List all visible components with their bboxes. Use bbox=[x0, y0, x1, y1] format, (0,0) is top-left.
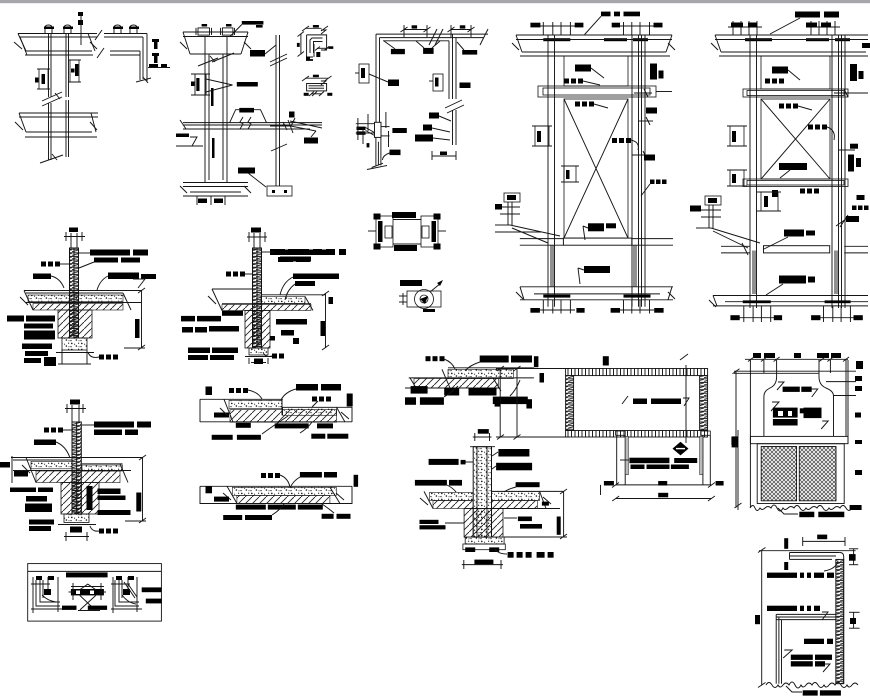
interior label Z--7 bbox=[622, 396, 628, 404]
top dim ticks bbox=[732, 21, 734, 35]
right vbars bbox=[534, 356, 539, 367]
X-braced panel bbox=[761, 99, 830, 179]
mini detail 3: L angle mirrored bbox=[115, 580, 139, 606]
top dim marks bbox=[753, 353, 761, 358]
right dim line bbox=[141, 290, 143, 348]
inner room box bbox=[776, 613, 836, 615]
base beam bbox=[713, 295, 868, 297]
bottom labels bbox=[799, 512, 814, 518]
left section symbol bbox=[535, 126, 549, 146]
right vbar bbox=[732, 436, 738, 447]
slab both sides bbox=[11, 457, 143, 459]
slab body bbox=[200, 398, 283, 400]
post cap verticals bbox=[70, 233, 72, 248]
top beam bbox=[516, 34, 672, 36]
right label bbox=[392, 128, 406, 133]
wall verticals below lower band bbox=[48, 137, 50, 160]
mast break marks bbox=[270, 54, 287, 62]
left diamonds bbox=[226, 272, 231, 277]
left labels bbox=[429, 459, 459, 465]
top tick bbox=[69, 228, 78, 233]
right column bbox=[631, 35, 633, 307]
label lower panel bbox=[779, 276, 806, 284]
anchor bolt left bbox=[45, 25, 52, 33]
labels below hatch left bbox=[222, 311, 243, 316]
bottom dim bbox=[462, 564, 503, 566]
dim group 1 bbox=[404, 29, 427, 31]
ladder post bbox=[72, 422, 81, 514]
right side marks bbox=[856, 361, 863, 369]
top horizontal line bbox=[759, 550, 856, 552]
coping L profile bbox=[790, 552, 840, 554]
bottom tick bbox=[70, 527, 82, 533]
anchor bolt right bbox=[64, 25, 71, 33]
dashed marks bbox=[149, 64, 158, 67]
right vbar bbox=[347, 394, 353, 407]
bottom labels bbox=[411, 386, 428, 394]
bottom dim ticks bbox=[542, 300, 544, 314]
mast dim tick bbox=[270, 125, 290, 127]
converging leader to label bbox=[206, 79, 233, 85]
left column bbox=[749, 35, 751, 308]
right side labels mid bbox=[850, 144, 858, 149]
top tick and dim bbox=[478, 429, 489, 434]
bottom dim ticks bbox=[743, 306, 745, 322]
left edge marks bbox=[0, 462, 10, 468]
right dim bbox=[325, 293, 327, 348]
label row 1 bbox=[767, 573, 797, 578]
lower panel inner verticals bbox=[752, 251, 754, 295]
upper panel labels bbox=[575, 65, 591, 72]
upper panel outline bbox=[564, 56, 628, 86]
upper panel outline bbox=[761, 56, 830, 89]
break slashes on wall bbox=[429, 29, 437, 45]
speckled wall bbox=[473, 447, 491, 537]
top labels of slab bbox=[415, 480, 447, 486]
dim line across bbox=[734, 370, 856, 372]
window frame bbox=[757, 444, 844, 504]
footing bbox=[62, 338, 87, 350]
small tick bbox=[367, 143, 370, 147]
right column bbox=[701, 431, 711, 435]
mini detail 2: bar with wedge bbox=[71, 586, 104, 588]
top labels bbox=[480, 356, 509, 363]
section below box: left column bbox=[616, 431, 626, 435]
right label at lintel bbox=[646, 108, 657, 114]
leader line down to diamond4 bbox=[685, 365, 687, 443]
footing bbox=[64, 514, 89, 523]
right column bbox=[831, 35, 833, 308]
bottom beam of panel bbox=[520, 238, 564, 240]
bottom labels bbox=[236, 423, 251, 428]
mid band bbox=[750, 436, 848, 443]
ladder post bbox=[253, 248, 262, 348]
bottom diamonds bbox=[99, 529, 104, 534]
left diamonds bbox=[41, 262, 46, 267]
slab right bbox=[492, 491, 540, 500]
footing layers bbox=[465, 537, 504, 544]
center column box bbox=[375, 122, 382, 137]
left section symbol bbox=[195, 74, 206, 95]
anchor bolt 1 bbox=[114, 25, 121, 33]
wall vertical pair 1 bbox=[48, 34, 50, 98]
right labels bbox=[498, 449, 529, 457]
labels right of post bbox=[274, 250, 319, 256]
top diamonds bbox=[261, 473, 266, 478]
top tick bbox=[70, 400, 80, 405]
bottom labels bbox=[803, 690, 818, 695]
dim line 1 bbox=[616, 484, 712, 486]
mast side ticks bbox=[289, 112, 295, 118]
outer wall line pair bbox=[841, 35, 843, 308]
mid floor beam bbox=[721, 245, 750, 247]
inside labels bbox=[804, 639, 824, 644]
wall verticals continue through band bbox=[48, 103, 50, 137]
rebar dark bars in column bbox=[211, 88, 214, 106]
below lintel diamonds bbox=[575, 102, 580, 107]
ground squiggle bbox=[750, 505, 852, 511]
lower wall band bbox=[19, 112, 98, 114]
left diamonds bbox=[44, 428, 49, 433]
hump callout on beam bbox=[230, 110, 267, 123]
bottom diamonds bbox=[272, 354, 277, 359]
right stem verticals bbox=[448, 41, 450, 99]
top beam bbox=[183, 31, 248, 33]
middle beam bbox=[183, 122, 322, 124]
right section symbol bbox=[433, 74, 443, 91]
ground squiggle bbox=[766, 682, 858, 688]
pedestal bbox=[58, 310, 92, 338]
left label bbox=[33, 274, 51, 280]
wall band bbox=[104, 33, 147, 35]
outer wall line pair bbox=[641, 35, 643, 307]
label in panel bbox=[779, 163, 807, 170]
inner section symbol bbox=[564, 166, 576, 182]
beam-column joint dashes bbox=[543, 38, 570, 41]
labels left of lower stem bbox=[429, 113, 439, 119]
far-left pier symbol bbox=[705, 196, 721, 205]
right labels bbox=[98, 489, 121, 495]
bottom dim bbox=[432, 155, 456, 157]
diamonds below lintel bbox=[779, 104, 784, 109]
top tick bbox=[251, 228, 261, 233]
slab left bbox=[429, 493, 473, 501]
label to base bbox=[238, 168, 255, 174]
base plate bbox=[267, 186, 292, 196]
left tall dim line bbox=[761, 550, 763, 685]
beam-column joint dashes bbox=[745, 38, 772, 41]
bottom dim ticks bbox=[196, 196, 198, 205]
X-braced panel bbox=[564, 99, 628, 238]
diamonds below lintel2 bbox=[800, 189, 805, 194]
wall break slashes bbox=[95, 30, 102, 40]
label lower panel bbox=[584, 266, 610, 273]
slab body: high right, low left bbox=[448, 367, 534, 369]
dashed datum marks bbox=[78, 20, 83, 25]
box borders with ticks bbox=[566, 369, 708, 376]
wall cap bbox=[470, 446, 495, 448]
left marks bbox=[206, 486, 213, 493]
interior Z--7 label bbox=[777, 382, 784, 390]
lower wall verticals bbox=[375, 137, 377, 165]
right dim bbox=[142, 457, 144, 521]
top dim ticks bbox=[542, 22, 544, 35]
footing bbox=[249, 348, 268, 355]
stem continues down bbox=[452, 110, 454, 145]
left column bbox=[547, 35, 549, 307]
left label stack bbox=[7, 316, 24, 322]
diamonds in panel bbox=[808, 125, 813, 130]
top wall band bbox=[18, 33, 97, 35]
dim group 2 bbox=[451, 29, 471, 31]
side plate mark 1 bbox=[152, 39, 159, 42]
left section symbol bbox=[359, 64, 369, 83]
leaders bbox=[97, 276, 108, 290]
small ticks above bbox=[784, 538, 788, 549]
mini detail 1: L angle bbox=[36, 580, 60, 606]
top label bbox=[242, 21, 264, 25]
far-left pier symbol bbox=[504, 193, 520, 202]
top labels bbox=[296, 384, 318, 391]
label to mast bbox=[250, 50, 265, 57]
lintel beam bbox=[538, 86, 656, 97]
upper panel labels bbox=[772, 67, 788, 74]
right label lower2 bbox=[846, 216, 859, 222]
labels under wall with V leaders bbox=[391, 49, 405, 54]
lintel beam 1 bbox=[743, 89, 848, 97]
column section symbol right bbox=[70, 60, 79, 82]
right outer labels upper bbox=[650, 64, 657, 80]
right small blob and diamonds bbox=[857, 195, 865, 200]
top label and dim bbox=[817, 535, 827, 540]
bottom break mark bbox=[40, 155, 63, 163]
left label bbox=[34, 440, 56, 446]
top grey bar bbox=[0, 0, 870, 3]
diamonds 2 bbox=[312, 397, 317, 402]
top title label bbox=[601, 12, 611, 17]
7 mark and line bbox=[176, 134, 189, 138]
bottom beam bbox=[183, 182, 248, 184]
label above bottom beam bbox=[588, 223, 604, 231]
lower panel inner verticals bbox=[550, 245, 552, 287]
slab bbox=[212, 288, 253, 290]
bottom labels bbox=[236, 505, 266, 510]
labels right of post bbox=[94, 422, 134, 428]
tick lines bbox=[356, 123, 375, 125]
labels right of post bbox=[90, 250, 130, 256]
pedestal bbox=[464, 509, 503, 538]
right big label + 7 mark bbox=[108, 273, 139, 280]
left label stack bbox=[10, 488, 36, 493]
interior label rows bbox=[629, 458, 669, 464]
right dim bracket 2 bbox=[849, 611, 860, 613]
right labels bbox=[460, 83, 471, 89]
left corner verticals down bbox=[375, 34, 377, 122]
wall vertical pair 2 bbox=[65, 34, 67, 98]
right diamonds lower bbox=[650, 180, 655, 185]
mid-right labels bbox=[518, 517, 532, 522]
lintel beam 2 bbox=[743, 179, 848, 187]
break marks bbox=[198, 58, 218, 66]
label row 2 bbox=[767, 606, 797, 611]
top title label bbox=[795, 12, 820, 18]
bottom diamonds row bbox=[508, 552, 514, 558]
diamond 4 marker bbox=[673, 442, 689, 456]
dim line 2 bbox=[616, 498, 712, 500]
right vertical dim bbox=[737, 430, 739, 510]
right labels bbox=[293, 274, 339, 280]
base beam bbox=[520, 286, 673, 288]
right dim bbox=[563, 491, 565, 537]
top-left tick bbox=[603, 356, 609, 365]
flare lines bbox=[366, 128, 375, 133]
column section symbol left bbox=[39, 69, 48, 89]
horizontal line pair bbox=[734, 372, 819, 374]
beam end leaders and label bbox=[290, 121, 322, 128]
inner section symbol bbox=[761, 192, 778, 211]
side plate mark 2 bbox=[152, 53, 159, 56]
anchor bolt boxes on beam bbox=[202, 24, 208, 27]
column verticals bbox=[204, 37, 206, 184]
wall ladder strip bbox=[836, 559, 844, 683]
big label rows bbox=[771, 402, 779, 411]
protruding black bars right bbox=[142, 587, 162, 592]
right tick mid bbox=[632, 154, 650, 156]
bottom labels bbox=[188, 348, 210, 354]
top diamonds bbox=[426, 356, 431, 361]
right outer labels upper bbox=[850, 64, 857, 81]
anchor bolt 2 bbox=[130, 25, 137, 33]
break mark on wall bbox=[42, 92, 62, 101]
top wall horizontals bbox=[376, 33, 488, 35]
bottom-right diamonds bbox=[99, 355, 104, 360]
left edge marks bbox=[206, 387, 213, 396]
pedestal bbox=[61, 483, 99, 515]
right vbar bbox=[354, 475, 359, 487]
left section symbols bbox=[730, 126, 744, 146]
break zigzags bbox=[240, 117, 243, 129]
right mast element bbox=[275, 35, 277, 186]
right dim bracket 1 bbox=[849, 548, 858, 550]
top beam bbox=[715, 34, 868, 36]
corner verticals bbox=[146, 34, 148, 83]
left dim lines bbox=[499, 369, 501, 438]
right labels mid bbox=[276, 319, 307, 325]
break below corner bbox=[445, 100, 462, 108]
top diamonds bbox=[229, 388, 234, 393]
foot slants bbox=[372, 163, 383, 167]
mid diamonds right bbox=[612, 138, 617, 143]
wall end slants bbox=[136, 78, 151, 82]
top labels bbox=[300, 472, 322, 478]
ladder post bbox=[70, 248, 79, 338]
left thick bars bbox=[357, 127, 366, 130]
label above mid beam bbox=[784, 230, 804, 237]
slab body bbox=[200, 485, 352, 487]
slab bbox=[24, 290, 142, 292]
outer lines bbox=[749, 360, 751, 508]
left labels low bbox=[420, 520, 439, 524]
pedestal bbox=[245, 311, 270, 349]
lower label with leader bbox=[390, 150, 401, 156]
urn outline bbox=[763, 360, 765, 373]
